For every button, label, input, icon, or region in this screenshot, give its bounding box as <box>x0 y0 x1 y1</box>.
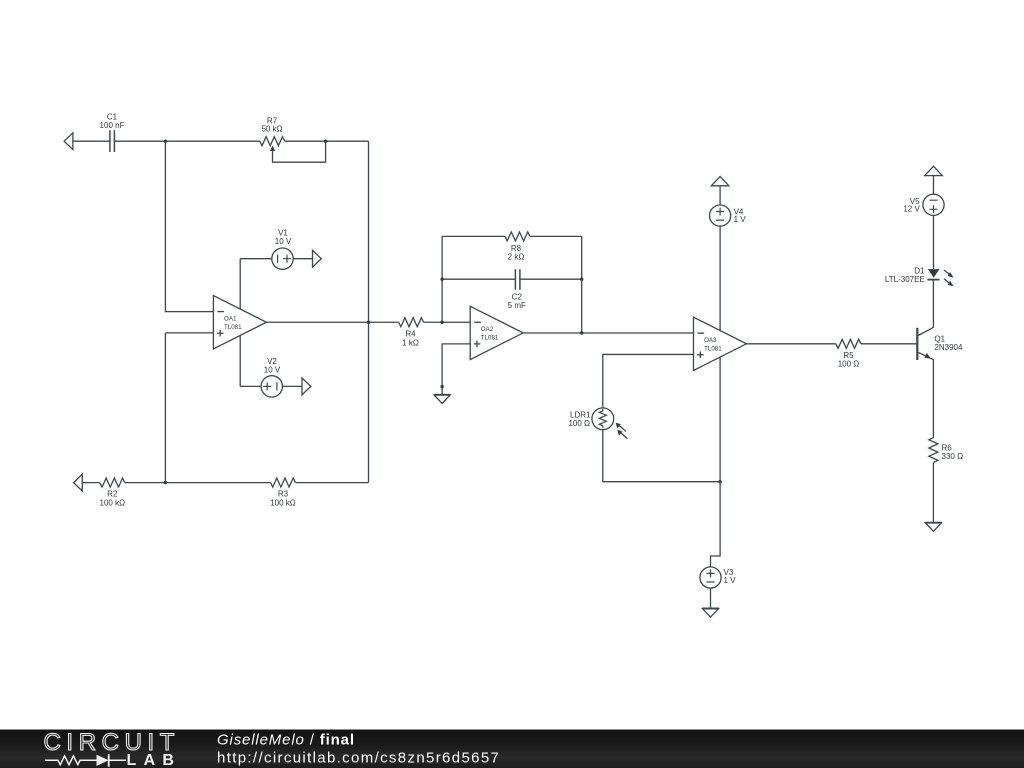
svg-text:OA2: OA2 <box>481 326 494 333</box>
svg-text:50 kΩ: 50 kΩ <box>261 125 282 134</box>
node junction <box>324 140 327 143</box>
OA1 V- stub <box>239 335 241 386</box>
svg-text:2 kΩ: 2 kΩ <box>508 253 525 262</box>
LDR1 <box>592 408 614 430</box>
capacitor C1 <box>110 130 115 152</box>
svg-text:100 nF: 100 nF <box>100 121 125 130</box>
svg-text:100 Ω: 100 Ω <box>838 359 860 368</box>
svg-text:1 V: 1 V <box>724 576 737 585</box>
svg-text:1 V: 1 V <box>734 215 747 224</box>
op-amp OA1 <box>213 296 266 349</box>
node junction <box>580 331 583 334</box>
svg-text:100 Ω: 100 Ω <box>568 419 590 428</box>
resistor R8 <box>505 232 530 241</box>
svg-text:LAB: LAB <box>127 752 182 768</box>
node junction <box>367 321 370 324</box>
svg-text:100 kΩ: 100 kΩ <box>270 498 296 507</box>
op-amp OA3 <box>694 317 747 370</box>
svg-text:Q1: Q1 <box>934 334 945 343</box>
OA3 V+ stub <box>719 226 721 330</box>
node junction <box>164 140 167 143</box>
svg-text:10 V: 10 V <box>264 365 281 374</box>
svg-text:LDR1: LDR1 <box>570 411 591 420</box>
node junction <box>440 321 443 324</box>
capacitor C2 <box>515 269 520 290</box>
footer bar <box>0 730 1024 768</box>
svg-text:TL081: TL081 <box>224 324 242 331</box>
voltage source V2 <box>240 385 261 387</box>
resistor R4 <box>399 318 424 327</box>
wire <box>73 140 110 142</box>
wire <box>82 482 100 484</box>
LED D1 <box>928 269 939 278</box>
OA2 + input wire to ground <box>442 344 470 394</box>
footer text <box>217 732 500 767</box>
R7 wiper arrow <box>273 141 326 162</box>
svg-text:5 mF: 5 mF <box>508 301 526 310</box>
ground <box>925 522 942 531</box>
svg-text:OA3: OA3 <box>704 337 717 344</box>
node junction <box>440 385 443 388</box>
svg-text:R2: R2 <box>107 490 118 499</box>
svg-text:100 kΩ: 100 kΩ <box>100 498 126 507</box>
wire <box>165 333 213 483</box>
node junction <box>440 278 443 281</box>
OA3 output wire <box>746 343 836 345</box>
resistor R6 <box>929 438 938 463</box>
ground <box>434 395 451 404</box>
wire <box>442 235 505 237</box>
svg-text:TL081: TL081 <box>704 346 722 353</box>
svg-text:LTL-307EE: LTL-307EE <box>885 275 925 284</box>
wire <box>530 235 582 237</box>
OA3 + input wire <box>603 354 694 407</box>
wire from LDR bottom <box>603 430 720 482</box>
CircuitLab logo <box>44 729 182 768</box>
feedback right vertical <box>581 236 583 333</box>
wire <box>165 141 213 311</box>
svg-text:2N3904: 2N3904 <box>934 343 963 352</box>
node junction <box>580 278 583 281</box>
wire <box>114 140 259 142</box>
svg-text:330 Ω: 330 Ω <box>942 452 964 461</box>
resistor R5 <box>836 339 861 348</box>
transistor Q1 <box>916 328 918 360</box>
wire <box>442 278 582 280</box>
voltage source V3 <box>700 567 721 588</box>
feedback left vertical <box>441 236 443 322</box>
svg-text:R3: R3 <box>278 490 289 499</box>
OA1 V+ stub <box>239 259 241 310</box>
OA1 output wire <box>266 321 398 323</box>
wire <box>424 321 471 323</box>
svg-text:TL081: TL081 <box>481 335 499 342</box>
wire <box>285 140 369 142</box>
svg-text:1 kΩ: 1 kΩ <box>402 339 419 348</box>
voltage source V5 <box>933 176 935 195</box>
svg-text:GiselleMelo / final: GiselleMelo / final <box>217 732 355 749</box>
svg-text:R4: R4 <box>405 330 416 339</box>
voltage source V1 <box>240 258 272 260</box>
wire <box>125 482 271 484</box>
voltage source V4 <box>719 186 721 205</box>
op-amp OA2 <box>470 306 523 359</box>
wire to Q1 base <box>861 343 917 345</box>
resistor R2 <box>100 478 125 487</box>
wire <box>368 141 370 482</box>
wire <box>932 463 934 523</box>
ground <box>702 608 719 617</box>
resistor R3 <box>271 478 296 487</box>
node junction <box>718 480 721 483</box>
svg-text:http://circuitlab.com/cs8zn5r6: http://circuitlab.com/cs8zn5r6d5657 <box>217 750 500 767</box>
terminal input arrow (top-left) <box>64 133 73 150</box>
wire <box>296 482 369 484</box>
OA3 V- stub down to V3 <box>711 357 721 567</box>
resistor R7 <box>260 137 285 146</box>
power arrow terminal <box>925 166 943 175</box>
power arrow terminal <box>711 176 729 185</box>
node junction <box>164 481 167 484</box>
terminal input arrow (bottom-left) <box>74 474 83 491</box>
svg-text:10 V: 10 V <box>275 237 292 246</box>
svg-text:12 V: 12 V <box>903 205 920 214</box>
svg-text:OA1: OA1 <box>224 315 237 322</box>
OA2 output wire <box>523 332 693 334</box>
